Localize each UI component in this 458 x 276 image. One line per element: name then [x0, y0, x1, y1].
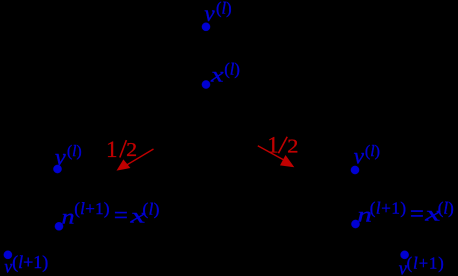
svg-text:2: 2 — [287, 136, 298, 158]
svg-text:(l): (l) — [438, 198, 454, 217]
svg-text:=: = — [410, 201, 424, 226]
svg-text:v: v — [55, 145, 66, 171]
svg-text:x: x — [210, 63, 225, 87]
svg-text:(l): (l) — [143, 199, 160, 218]
svg-text:=: = — [114, 203, 128, 228]
svg-text:(l+1): (l+1) — [407, 253, 445, 272]
svg-text:(l): (l) — [67, 143, 82, 160]
svg-text:2: 2 — [126, 140, 137, 161]
svg-text:(l): (l) — [224, 59, 240, 78]
svg-text:n: n — [62, 205, 75, 229]
svg-text:1: 1 — [106, 137, 118, 162]
svg-text:(l+1): (l+1) — [370, 198, 407, 217]
svg-text:(l): (l) — [216, 0, 232, 17]
svg-text:(l): (l) — [365, 143, 380, 160]
svg-text:v: v — [354, 143, 365, 168]
svg-text:v: v — [204, 1, 215, 26]
svg-text:(l+1): (l+1) — [12, 252, 48, 273]
svg-text:(l+1): (l+1) — [74, 199, 110, 218]
